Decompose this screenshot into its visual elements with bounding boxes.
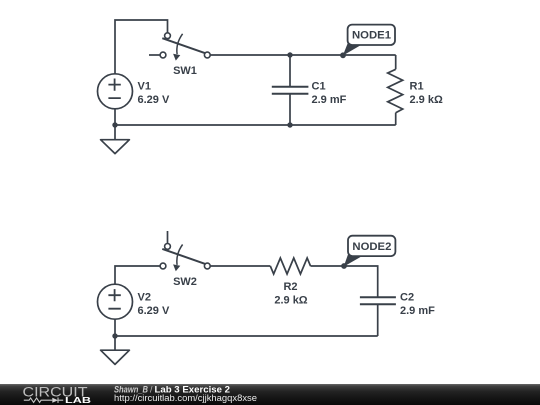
svg-text:NODE2: NODE2 [352, 241, 391, 253]
svg-text:2.9 kΩ: 2.9 kΩ [274, 295, 307, 307]
svg-text:http://circuitlab.com/cjjkhagq: http://circuitlab.com/cjjkhagqx8xse [114, 393, 257, 403]
svg-text:NODE1: NODE1 [352, 30, 391, 42]
svg-text:R1: R1 [410, 81, 424, 93]
svg-text:2.9 mF: 2.9 mF [400, 305, 435, 317]
svg-text:SW1: SW1 [173, 65, 197, 77]
svg-text:V1: V1 [138, 81, 151, 93]
svg-text:C2: C2 [400, 291, 414, 303]
svg-text:LAB: LAB [65, 395, 91, 405]
svg-text:2.9 kΩ: 2.9 kΩ [410, 94, 443, 106]
svg-text:2.9 mF: 2.9 mF [312, 94, 347, 106]
svg-text:6.29 V: 6.29 V [138, 305, 170, 317]
svg-text:C1: C1 [312, 81, 326, 93]
svg-text:6.29 V: 6.29 V [138, 94, 170, 106]
svg-text:V2: V2 [138, 291, 151, 303]
svg-text:SW2: SW2 [173, 276, 197, 288]
svg-text:R2: R2 [283, 281, 297, 293]
